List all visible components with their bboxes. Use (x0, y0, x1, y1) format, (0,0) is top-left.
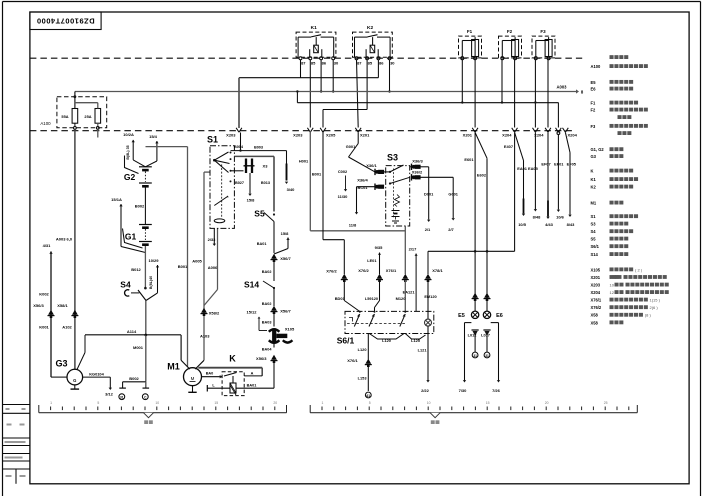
svg-text:X36/4: X36/4 (357, 178, 368, 183)
svg-text:X3: X3 (263, 164, 269, 169)
svg-text:M: M (191, 376, 195, 381)
svg-text:11/30: 11/30 (338, 194, 349, 199)
svg-text:B(8L)40: B(8L)40 (149, 276, 153, 289)
svg-text:85: 85 (311, 60, 316, 65)
svg-text:L120: L120 (382, 338, 391, 343)
svg-text:G3: G3 (55, 359, 67, 369)
svg-text:BA02: BA02 (262, 302, 272, 306)
svg-text:10/6: 10/6 (556, 215, 565, 220)
svg-text:10: 10 (427, 401, 431, 405)
svg-text:B(8L) 35: B(8L) 35 (126, 145, 130, 159)
svg-text:EA121: EA121 (403, 290, 416, 295)
svg-text:K002: K002 (39, 292, 49, 297)
svg-text:20: 20 (545, 401, 549, 405)
svg-text:S1: S1 (591, 214, 597, 219)
svg-text:10/29: 10/29 (148, 258, 159, 263)
svg-text:A005: A005 (192, 259, 202, 264)
svg-text:B027: B027 (235, 181, 244, 185)
svg-text:X76/1: X76/1 (347, 358, 358, 363)
svg-text:S3: S3 (591, 222, 597, 227)
svg-text:2/1: 2/1 (425, 227, 431, 232)
svg-text:K2: K2 (591, 185, 597, 190)
svg-text:X56/3: X56/3 (33, 303, 44, 308)
svg-text:E5: E5 (458, 313, 465, 319)
svg-text:85: 85 (368, 60, 373, 65)
svg-text:X203: X203 (226, 133, 236, 138)
svg-text:E5: E5 (591, 80, 597, 85)
svg-text:X76/2: X76/2 (358, 268, 369, 273)
svg-text:1(15 ): 1(15 ) (650, 298, 661, 303)
svg-text:X76/2: X76/2 (591, 305, 602, 310)
svg-text:A006: A006 (208, 265, 218, 270)
svg-text:BA01: BA01 (257, 242, 267, 246)
svg-text:K: K (229, 354, 236, 364)
svg-text:B013: B013 (261, 181, 270, 185)
svg-text:S5: S5 (591, 237, 597, 242)
svg-text:25A: 25A (84, 114, 91, 119)
svg-text:L012: L012 (468, 333, 478, 338)
svg-text:G001: G001 (448, 192, 458, 197)
svg-text:B003: B003 (254, 146, 263, 150)
svg-text:G001: G001 (346, 144, 356, 149)
svg-text:(8 ): (8 ) (645, 313, 652, 318)
svg-text:B001: B001 (178, 264, 188, 269)
svg-text:X58/2: X58/2 (209, 311, 220, 316)
svg-text:X201: X201 (591, 275, 601, 280)
svg-text:S4: S4 (591, 229, 597, 234)
svg-text:F1: F1 (467, 29, 473, 34)
svg-text:X203: X203 (591, 283, 601, 288)
svg-text:K: K (591, 169, 594, 174)
svg-text:8/48: 8/48 (533, 215, 542, 220)
svg-text:1: 1 (50, 401, 52, 405)
svg-text:K1: K1 (591, 177, 597, 182)
svg-text:61: 61 (367, 394, 371, 398)
svg-text:BA04: BA04 (262, 348, 273, 352)
svg-text:G2: G2 (124, 172, 136, 182)
svg-text:EM120: EM120 (424, 294, 436, 299)
svg-text:X36/3: X36/3 (412, 159, 423, 164)
svg-text:X56/7: X56/7 (280, 309, 291, 314)
svg-text:B002: B002 (129, 376, 139, 381)
svg-text:X204: X204 (568, 133, 578, 138)
svg-text:L121: L121 (418, 348, 428, 353)
svg-text:X76/1: X76/1 (386, 268, 397, 273)
svg-text:BA03: BA03 (262, 321, 272, 325)
svg-text:LE01: LE01 (367, 258, 377, 263)
svg-text:F3: F3 (591, 124, 597, 129)
svg-text:25: 25 (604, 401, 608, 405)
svg-text:4/43: 4/43 (545, 222, 554, 227)
svg-text:M001: M001 (133, 345, 144, 350)
svg-text:L: L (212, 383, 215, 387)
svg-text:B004: B004 (234, 145, 244, 149)
svg-text:X105: X105 (285, 327, 295, 332)
svg-text:A003: A003 (556, 85, 567, 90)
svg-text:31: 31 (120, 396, 124, 400)
svg-text:10: 10 (610, 283, 615, 288)
svg-text:EF05: EF05 (567, 162, 577, 167)
svg-text:87: 87 (301, 60, 306, 65)
svg-text:15/1A: 15/1A (111, 197, 122, 202)
svg-text:11/8: 11/8 (349, 223, 357, 228)
svg-text:S4: S4 (120, 280, 131, 290)
svg-text:86: 86 (379, 60, 384, 65)
svg-text:L153: L153 (358, 376, 368, 381)
svg-text:X205: X205 (326, 133, 336, 138)
svg-text:X56/3: X56/3 (256, 356, 267, 361)
svg-text:F1: F1 (591, 101, 597, 106)
svg-text:K1: K1 (311, 25, 317, 31)
svg-text:2/33: 2/33 (208, 237, 217, 242)
svg-text:X36/2: X36/2 (412, 169, 423, 174)
svg-text:5: 5 (369, 401, 371, 405)
svg-text:L125: L125 (411, 338, 421, 343)
svg-text:S14: S14 (591, 252, 599, 257)
svg-text:15/8: 15/8 (281, 231, 290, 236)
svg-text:S3: S3 (387, 153, 398, 163)
svg-text:10/2A: 10/2A (123, 132, 134, 137)
svg-text:X56/7: X56/7 (280, 256, 291, 261)
svg-text:7/30: 7/30 (459, 388, 468, 393)
svg-text:B002: B002 (135, 204, 145, 209)
svg-text:S14: S14 (244, 280, 259, 290)
svg-text:A103: A103 (200, 334, 210, 339)
svg-text:S6/1: S6/1 (337, 336, 355, 346)
svg-text:A102: A102 (62, 325, 72, 330)
svg-text:EF01: EF01 (554, 162, 564, 167)
svg-text:S1: S1 (207, 135, 218, 145)
svg-text:S5: S5 (254, 209, 265, 219)
svg-text:L120: L120 (358, 347, 367, 352)
svg-text:55A: 55A (61, 114, 68, 119)
svg-text:G1: G1 (125, 232, 137, 242)
svg-text:M1: M1 (167, 362, 180, 372)
svg-text:1: 1 (322, 401, 324, 405)
svg-text:X201: X201 (360, 133, 370, 138)
svg-text:3/12: 3/12 (105, 392, 114, 397)
svg-text:B012: B012 (131, 267, 141, 272)
svg-text:4/31: 4/31 (43, 243, 52, 248)
svg-text:E602: E602 (477, 173, 487, 178)
svg-text:K2: K2 (367, 25, 373, 31)
svg-text:X201: X201 (463, 133, 473, 138)
svg-text:2/22: 2/22 (421, 388, 430, 393)
svg-text:X204: X204 (502, 133, 512, 138)
svg-text:2/7: 2/7 (448, 227, 454, 232)
svg-text:2(6 ): 2(6 ) (650, 305, 659, 310)
svg-text:15: 15 (486, 401, 490, 405)
svg-text:B001: B001 (312, 172, 322, 177)
svg-text:X78/1: X78/1 (432, 268, 443, 273)
svg-text:K001: K001 (39, 325, 49, 330)
svg-text:BC01: BC01 (358, 185, 369, 190)
svg-text:( 2 ): ( 2 ) (635, 267, 643, 272)
svg-text:10: 10 (155, 401, 159, 405)
svg-text:E407: E407 (504, 144, 513, 149)
svg-text:X76/2: X76/2 (326, 269, 337, 274)
svg-text:31: 31 (473, 354, 477, 358)
svg-text:EF07: EF07 (541, 162, 550, 167)
svg-text:M120: M120 (396, 296, 406, 301)
svg-text:X203: X203 (293, 133, 303, 138)
svg-text:F2: F2 (507, 29, 513, 34)
svg-text:BD01: BD01 (335, 296, 346, 301)
svg-text:F2: F2 (591, 108, 597, 113)
svg-text:F3: F3 (540, 29, 546, 34)
svg-text:E6: E6 (591, 87, 597, 92)
svg-text:BA0: BA0 (206, 372, 214, 376)
svg-text:15/8: 15/8 (247, 198, 256, 203)
svg-text:E601: E601 (464, 157, 474, 162)
svg-text:L017: L017 (481, 333, 490, 338)
svg-text:BA01: BA01 (247, 383, 257, 387)
svg-text:BA02: BA02 (262, 270, 272, 274)
svg-text:A100: A100 (40, 121, 51, 126)
svg-text:C002: C002 (338, 169, 348, 174)
svg-text:A114: A114 (127, 329, 137, 334)
svg-text:20: 20 (273, 401, 277, 405)
svg-text:S6/1: S6/1 (591, 244, 600, 249)
svg-text:30: 30 (390, 60, 395, 65)
svg-text:30: 30 (334, 60, 339, 65)
svg-text:12: 12 (610, 290, 615, 295)
svg-text:G: G (73, 378, 76, 383)
svg-text:G1, G2: G1, G2 (591, 147, 605, 152)
svg-text:15: 15 (214, 401, 218, 405)
svg-text:KG0104: KG0104 (89, 371, 104, 376)
svg-text:2/17: 2/17 (409, 247, 418, 252)
svg-text:15/4: 15/4 (149, 134, 158, 139)
svg-text:10/5: 10/5 (518, 222, 527, 227)
svg-text:A003 6,0: A003 6,0 (56, 237, 73, 242)
svg-text:A: A (251, 371, 254, 375)
svg-text:E6: E6 (496, 313, 503, 319)
svg-text:9/35: 9/35 (375, 245, 384, 250)
svg-text:X204: X204 (591, 290, 601, 295)
svg-text:A100: A100 (591, 64, 602, 69)
svg-text:X105: X105 (591, 267, 601, 272)
svg-text:15/12: 15/12 (246, 310, 257, 315)
svg-text:87: 87 (357, 60, 362, 65)
svg-text:5: 5 (97, 401, 99, 405)
svg-text:8: 8 (581, 90, 584, 95)
svg-text:DZ91007T4000: DZ91007T4000 (36, 17, 94, 26)
svg-text:X36/1: X36/1 (366, 163, 377, 168)
svg-text:8/43: 8/43 (567, 222, 576, 227)
svg-text:L59120: L59120 (365, 296, 378, 301)
svg-text:M1: M1 (591, 201, 597, 206)
svg-text:31: 31 (485, 354, 489, 358)
svg-text:X76/1: X76/1 (591, 298, 602, 303)
svg-text:7/26: 7/26 (492, 388, 501, 393)
svg-text:H001: H001 (299, 159, 309, 164)
svg-text:G3: G3 (591, 154, 597, 159)
svg-text:3/40: 3/40 (287, 187, 296, 192)
svg-text:X58: X58 (591, 313, 599, 318)
svg-text:D001: D001 (424, 192, 434, 197)
svg-text:X58/1: X58/1 (57, 303, 68, 308)
svg-text:X58: X58 (591, 320, 599, 325)
svg-text:86: 86 (322, 60, 327, 65)
